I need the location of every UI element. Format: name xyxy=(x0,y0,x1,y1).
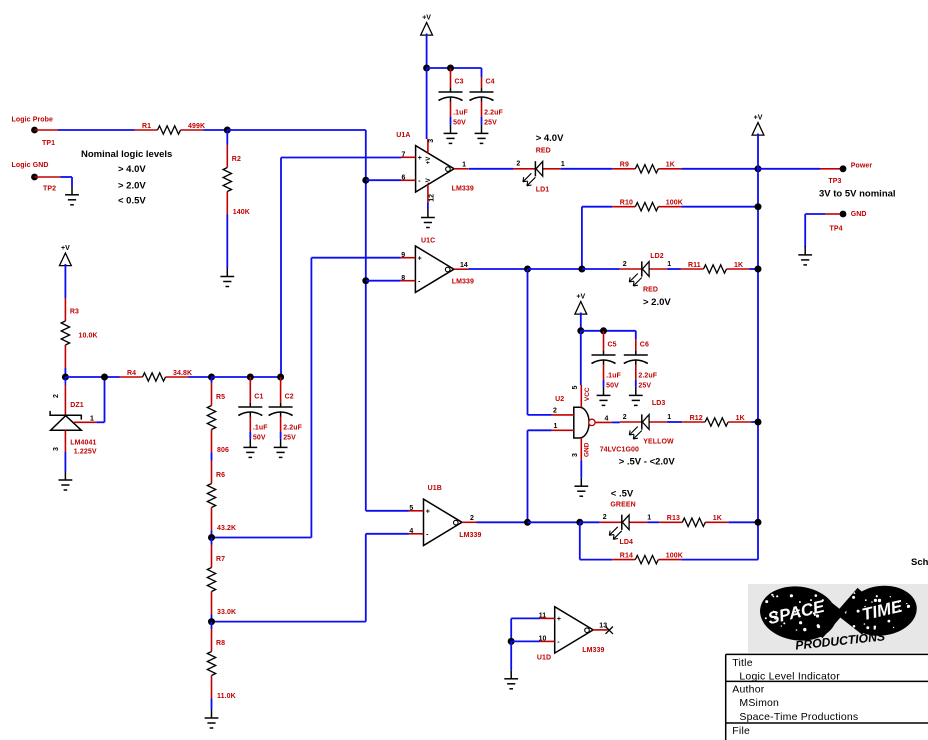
wire U1D inputs to ground xyxy=(510,641,512,670)
+V power symbol right rail xyxy=(752,115,764,135)
wire to LD4 xyxy=(580,521,600,523)
junction sense rail / U1A pin6 xyxy=(362,177,369,184)
ground below R2 xyxy=(220,268,234,287)
test point TP1 (Logic Probe) xyxy=(12,117,59,148)
svg-text:1K: 1K xyxy=(734,262,743,269)
zener DZ1 LM4041 1.225V xyxy=(50,377,97,456)
svg-text:R13: R13 xyxy=(667,515,680,522)
junction sense rail / U1C pin8 xyxy=(362,277,369,284)
wire corner into C4 xyxy=(481,68,483,77)
junction U1B out / U2 pin1 riser xyxy=(524,519,531,526)
ground of C2 xyxy=(274,439,288,458)
svg-text:1K: 1K xyxy=(666,162,675,169)
svg-text:R7: R7 xyxy=(216,556,225,563)
svg-text:33.0K: 33.0K xyxy=(217,609,236,616)
wire U1B out xyxy=(477,521,528,523)
svg-text:5: 5 xyxy=(409,505,413,512)
resistor R11 1K xyxy=(681,262,750,273)
wire node A down to R2 xyxy=(226,130,228,145)
resistor R10 100K xyxy=(612,200,683,211)
wire +V to VCC rail xyxy=(580,313,582,331)
resistor R3 10.0K xyxy=(61,298,97,368)
svg-text:C1: C1 xyxy=(254,394,263,401)
wire riser pin9 to 43.2K node xyxy=(310,258,312,538)
wire +V to U1A pin3 xyxy=(426,68,428,139)
svg-text:R5: R5 xyxy=(216,394,225,401)
junction U1C out / U2 pin2 riser xyxy=(524,266,531,273)
resistor R4 34.8K xyxy=(120,370,193,381)
svg-text:Author: Author xyxy=(732,683,764,695)
resistor R9 1K xyxy=(612,162,681,173)
wire riser U2 pin1 to U1B out xyxy=(527,430,529,522)
ground at U1D inputs xyxy=(504,670,518,689)
svg-text:3: 3 xyxy=(53,447,60,451)
wire R7 to node E xyxy=(211,615,213,622)
svg-text:2: 2 xyxy=(623,414,627,421)
svg-text:12: 12 xyxy=(428,194,435,202)
resistor R5 806 xyxy=(207,383,229,455)
svg-text:1: 1 xyxy=(561,161,565,168)
svg-text:2: 2 xyxy=(53,394,60,398)
wire VCC down to U2 xyxy=(580,331,582,385)
svg-text:R6: R6 xyxy=(216,472,225,479)
junction U1B out / R14 riser xyxy=(576,519,583,526)
wire TP4 left xyxy=(805,213,825,215)
Space-Time Productions logo xyxy=(748,582,928,653)
svg-text:4: 4 xyxy=(409,528,413,535)
no-connect X at U1D output xyxy=(606,627,613,634)
wire node C to C1 C2 xyxy=(212,376,281,378)
resistor R14 100K xyxy=(612,552,683,563)
wire corner into C6 xyxy=(635,331,637,339)
svg-text:3V to 5V nominal: 3V to 5V nominal xyxy=(819,189,896,200)
wire riser to U2 pin2 xyxy=(527,269,529,415)
wire +V down xyxy=(426,34,428,69)
ground of C5 xyxy=(597,387,611,406)
wire R2 to ground xyxy=(226,215,228,269)
svg-text:C3: C3 xyxy=(455,79,464,86)
wire U2 GND to ground xyxy=(580,460,582,477)
svg-text:LM339: LM339 xyxy=(582,647,604,654)
LED LD2 red xyxy=(620,261,672,286)
wire node D to R7 xyxy=(211,538,213,545)
svg-text:LM339: LM339 xyxy=(452,278,474,285)
node C junction (R4/R5/C1) xyxy=(208,374,215,381)
wire to U1B pin4 xyxy=(366,533,409,535)
wire U1D pin11 xyxy=(511,617,540,619)
ground below DZ1 xyxy=(59,472,73,491)
resistor R1 499K xyxy=(135,123,206,134)
svg-text:U1B: U1B xyxy=(428,485,442,492)
svg-text:.1uF: .1uF xyxy=(453,110,468,117)
capacitor C3 .1uF xyxy=(439,68,469,127)
node D junction 43.2K xyxy=(208,534,215,541)
svg-text:1: 1 xyxy=(647,514,651,521)
svg-text:< .5V: < .5V xyxy=(611,488,634,499)
svg-text:Space-Time Productions: Space-Time Productions xyxy=(739,711,858,723)
+V power symbol at R3 xyxy=(60,245,72,265)
svg-text:.1uF: .1uF xyxy=(253,425,268,432)
wire node A to sense rail xyxy=(227,129,365,131)
svg-text:806: 806 xyxy=(217,447,229,454)
wire riser to R14 xyxy=(579,522,581,559)
svg-text:34.8K: 34.8K xyxy=(173,370,192,377)
junction C1 tap xyxy=(247,374,254,381)
svg-text:11: 11 xyxy=(539,613,547,620)
wire sense rail to U1B pin5 xyxy=(366,510,409,512)
wire to U1C pin8 xyxy=(366,280,401,282)
wire +V to R3 xyxy=(64,264,66,298)
wire riser U1D inputs xyxy=(510,618,512,641)
ground at TP2 xyxy=(65,186,79,205)
svg-text:> 2.0V: > 2.0V xyxy=(643,297,671,308)
svg-text:LM4041: LM4041 xyxy=(70,440,96,447)
svg-text:1K: 1K xyxy=(736,415,745,422)
wire riser R10 to U1C out xyxy=(581,207,583,269)
wire U1A pin12 to ground xyxy=(427,202,429,209)
junction VCC branch xyxy=(577,327,584,334)
svg-text:+: + xyxy=(557,616,561,623)
wire TP4 down to ground xyxy=(804,214,806,247)
svg-text:R2: R2 xyxy=(232,156,241,163)
junction C5 tap xyxy=(600,327,607,334)
svg-text:C4: C4 xyxy=(486,79,495,86)
wire LD3 to R12 xyxy=(667,421,682,423)
wire +V rail vertical right xyxy=(757,134,759,560)
svg-text:2: 2 xyxy=(623,261,627,268)
svg-text:499K: 499K xyxy=(188,123,205,130)
svg-text:R1: R1 xyxy=(142,123,151,130)
svg-text:< 0.5V: < 0.5V xyxy=(118,196,146,207)
NAND gate U2 74LVC1G00 xyxy=(552,385,639,460)
junction +V rail / C3 branch xyxy=(423,65,430,72)
wire R5 to R6 xyxy=(211,453,213,461)
junction R13 at +V rail xyxy=(755,519,762,526)
capacitor C2 2.2uF xyxy=(269,377,303,442)
ground of C6 xyxy=(629,387,643,406)
capacitor C4 2.2uF xyxy=(470,77,504,127)
wire to LD2 xyxy=(582,268,620,270)
wire TP2 to ground xyxy=(61,176,73,178)
svg-text:Logic GND: Logic GND xyxy=(12,162,49,169)
wire U2 out to LD3 xyxy=(612,421,620,423)
svg-text:> 2.0V: > 2.0V xyxy=(118,181,146,192)
wire R6 to node D xyxy=(211,531,213,538)
wire U1A out to LD1 xyxy=(469,168,514,170)
svg-text:6: 6 xyxy=(401,175,405,182)
wire U1D pin10 xyxy=(511,640,540,642)
svg-text:TP4: TP4 xyxy=(830,226,843,233)
svg-text:74LVC1G00: 74LVC1G00 xyxy=(600,447,639,454)
op-amp comparator U1B LM339 xyxy=(409,485,482,545)
svg-text:U1D: U1D xyxy=(537,655,551,662)
title block xyxy=(726,654,928,740)
junction U1C out / R10 riser xyxy=(578,266,585,273)
wire sense rail vertical xyxy=(365,130,367,511)
svg-text:MSimon: MSimon xyxy=(739,697,779,709)
svg-text:10.0K: 10.0K xyxy=(79,333,98,340)
resistor R13 1K xyxy=(659,515,728,526)
svg-text:2: 2 xyxy=(553,408,557,415)
svg-text:1: 1 xyxy=(667,414,671,421)
ground of C3 xyxy=(444,125,458,143)
svg-text:1: 1 xyxy=(554,423,558,430)
wire R12 to rail xyxy=(751,421,758,423)
svg-text:File: File xyxy=(732,725,750,737)
wire U1C out xyxy=(468,268,527,270)
svg-text:2.2uF: 2.2uF xyxy=(283,425,302,432)
junction U1D inputs xyxy=(508,638,515,645)
svg-text:R14: R14 xyxy=(620,552,633,559)
wire R8 to ground xyxy=(211,699,213,710)
wire R14 to rail bottom xyxy=(681,559,758,561)
wire node C to R5 xyxy=(211,377,213,383)
svg-text:Power: Power xyxy=(851,163,873,170)
ground at U2 xyxy=(574,478,588,497)
svg-text:.1uF: .1uF xyxy=(606,373,621,380)
svg-text:10: 10 xyxy=(539,636,547,643)
svg-text:DZ1: DZ1 xyxy=(70,402,84,409)
svg-text:R12: R12 xyxy=(690,415,703,422)
svg-text:2: 2 xyxy=(470,515,474,522)
svg-text:+V: +V xyxy=(426,157,432,165)
svg-text:100K: 100K xyxy=(666,200,683,207)
svg-text:50V: 50V xyxy=(453,120,466,127)
svg-text:R3: R3 xyxy=(70,309,79,316)
resistor R8 11.0K xyxy=(207,629,235,701)
svg-text:Title: Title xyxy=(732,657,752,669)
wire to R14 xyxy=(580,559,613,561)
svg-text:2: 2 xyxy=(516,161,520,168)
svg-text:RED: RED xyxy=(643,286,658,293)
wire R1 to node A xyxy=(204,129,228,131)
svg-text:+: + xyxy=(426,508,430,515)
resistor R6 43.2K xyxy=(207,461,236,533)
wire R10 to rail xyxy=(681,206,758,208)
op-amp comparator U1D LM339 (unused) xyxy=(537,607,608,662)
svg-text:TP2: TP2 xyxy=(43,186,56,193)
svg-text:50V: 50V xyxy=(253,435,266,442)
junction R9 at +V rail xyxy=(755,165,762,172)
LED LD4 green xyxy=(600,514,652,539)
junction DZ1 pin1 on R4 row xyxy=(101,374,108,381)
junction R12 at +V rail xyxy=(755,419,762,426)
svg-text:C5: C5 xyxy=(608,342,617,349)
svg-text:5: 5 xyxy=(572,386,579,390)
resistor R7 33.0K xyxy=(207,545,236,617)
svg-text:+V: +V xyxy=(754,115,763,122)
wire to U1A pin6 xyxy=(366,179,401,181)
svg-text:8: 8 xyxy=(401,275,405,282)
wire to U1A pin7 xyxy=(281,157,401,159)
+V power symbol at U2 xyxy=(575,294,587,314)
LED LD3 yellow xyxy=(620,414,672,439)
test point TP4 (GND) xyxy=(825,211,867,233)
wire R11 to rail xyxy=(750,268,759,270)
wire riser pin4 to 33.0K node xyxy=(365,534,367,622)
svg-text:C6: C6 xyxy=(640,342,649,349)
LED LD1 red xyxy=(513,161,565,186)
svg-text:+V: +V xyxy=(422,15,431,22)
svg-text:2.2uF: 2.2uF xyxy=(484,110,503,117)
wire 33.0K node to riser xyxy=(212,621,366,623)
svg-text:GND: GND xyxy=(584,442,591,457)
op-amp comparator U1C LM339 xyxy=(401,238,474,293)
wire TP1 to R1 xyxy=(58,129,135,131)
node A junction (probe divider) xyxy=(224,127,231,134)
capacitor C6 2.2uF xyxy=(624,339,658,390)
wire DZ1 pin1 to node xyxy=(96,421,104,423)
svg-text:+V: +V xyxy=(576,294,585,301)
svg-text:2.2uF: 2.2uF xyxy=(638,373,657,380)
svg-text:4: 4 xyxy=(605,416,609,423)
wire to U1C pin9 xyxy=(311,257,400,259)
ground at TP4 xyxy=(798,246,812,265)
capacitor C5 .1uF xyxy=(592,331,622,390)
wire R3 to node B xyxy=(64,368,66,377)
resistor R2 140K xyxy=(223,145,250,217)
svg-text:TP1: TP1 xyxy=(42,140,55,147)
wire riser pin7 to reference node xyxy=(280,158,282,378)
wire to C3 C4 xyxy=(427,67,482,69)
test point TP2 (Logic GND) xyxy=(12,162,61,193)
op-amp comparator U1A LM339 xyxy=(396,132,474,202)
svg-text:7: 7 xyxy=(401,152,405,159)
svg-text:R9: R9 xyxy=(620,162,629,169)
svg-text:140K: 140K xyxy=(233,209,250,216)
wire DZ1 to ground xyxy=(64,452,66,472)
svg-text:GREEN: GREEN xyxy=(610,502,635,509)
svg-text:3: 3 xyxy=(428,139,435,143)
wire node B to R4 xyxy=(65,376,119,378)
wire LD1 to R9 xyxy=(561,168,613,170)
svg-text:LM339: LM339 xyxy=(452,186,474,193)
wire 43.2K node to riser xyxy=(212,537,312,539)
svg-text:25V: 25V xyxy=(283,435,296,442)
svg-text:Nominal logic levels: Nominal logic levels xyxy=(81,149,172,160)
ground at U1A pin12 xyxy=(421,209,435,228)
node B junction (R3/R4/DZ1) xyxy=(62,374,69,381)
wire U2 pin1 xyxy=(528,429,552,431)
svg-text:TP3: TP3 xyxy=(828,178,841,185)
svg-text:GND: GND xyxy=(851,211,867,218)
wire node E to R8 xyxy=(211,622,213,629)
junction C3 tap xyxy=(447,65,454,72)
svg-text:25V: 25V xyxy=(484,120,497,127)
svg-text:Sch: Sch xyxy=(911,557,928,568)
ground of C1 xyxy=(243,439,257,458)
svg-text:1K: 1K xyxy=(713,515,722,522)
ground of C4 xyxy=(475,125,489,143)
svg-text:25V: 25V xyxy=(638,383,651,390)
svg-text:14: 14 xyxy=(460,262,468,269)
svg-text:VCC: VCC xyxy=(584,387,591,401)
svg-text:LM339: LM339 xyxy=(459,532,481,539)
svg-text:3: 3 xyxy=(572,453,579,457)
wire R10 left xyxy=(582,206,612,208)
wire R4 to node C xyxy=(189,376,212,378)
svg-text:LD2: LD2 xyxy=(650,253,664,260)
svg-text:+: + xyxy=(418,255,422,262)
svg-text:U2: U2 xyxy=(555,396,564,403)
svg-text:2: 2 xyxy=(603,514,607,521)
svg-text:U1A: U1A xyxy=(396,132,410,139)
svg-text:50V: 50V xyxy=(606,383,619,390)
svg-text:YELLOW: YELLOW xyxy=(643,439,674,446)
note: nominal logic levels xyxy=(81,149,172,207)
svg-text:C2: C2 xyxy=(285,394,294,401)
svg-text:R11: R11 xyxy=(688,262,701,269)
svg-text:100K: 100K xyxy=(666,552,683,559)
junction C2 tap / pin7 riser xyxy=(277,374,284,381)
wire LD2 to R11 xyxy=(667,268,680,270)
svg-text:+: + xyxy=(418,155,422,162)
svg-text:LD3: LD3 xyxy=(652,400,666,407)
capacitor C1 .1uF xyxy=(238,377,268,442)
svg-text:1.225V: 1.225V xyxy=(74,449,97,456)
junction R10 at +V rail xyxy=(755,203,762,210)
svg-text:> 4.0V: > 4.0V xyxy=(118,164,146,175)
junction R11 at +V rail xyxy=(755,266,762,273)
wire to C5 C6 xyxy=(581,330,636,332)
svg-text:9: 9 xyxy=(401,252,405,259)
wire R9 to +V rail xyxy=(681,168,758,170)
resistor R12 1K xyxy=(682,415,751,426)
svg-text:R10: R10 xyxy=(620,200,633,207)
svg-text:1: 1 xyxy=(462,162,466,169)
node E junction 33.0K xyxy=(208,618,215,625)
svg-text:RED: RED xyxy=(536,147,551,154)
ground below R8 xyxy=(205,710,219,729)
wire LD4 to R13 xyxy=(647,521,659,523)
svg-text:> 4.0V: > 4.0V xyxy=(536,133,564,144)
svg-text:+V: +V xyxy=(61,245,70,252)
+V power symbol top xyxy=(421,15,433,35)
svg-text:> .5V - <2.0V: > .5V - <2.0V xyxy=(619,457,676,468)
svg-text:U1C: U1C xyxy=(421,238,435,245)
svg-text:11.0K: 11.0K xyxy=(217,693,236,700)
svg-text:R4: R4 xyxy=(127,370,136,377)
svg-text:R8: R8 xyxy=(216,640,225,647)
svg-text:LD4: LD4 xyxy=(620,539,634,546)
svg-text:LD1: LD1 xyxy=(536,187,550,194)
test point TP3 (Power) xyxy=(758,163,872,186)
svg-text:Logic Level Indicator: Logic Level Indicator xyxy=(739,670,840,682)
svg-text:-V: -V xyxy=(426,178,432,184)
wire R13 to rail xyxy=(728,521,758,523)
svg-text:1: 1 xyxy=(667,261,671,268)
svg-text:Logic Probe: Logic Probe xyxy=(12,117,54,124)
svg-text:43.2K: 43.2K xyxy=(217,525,236,532)
svg-text:1: 1 xyxy=(90,416,94,423)
